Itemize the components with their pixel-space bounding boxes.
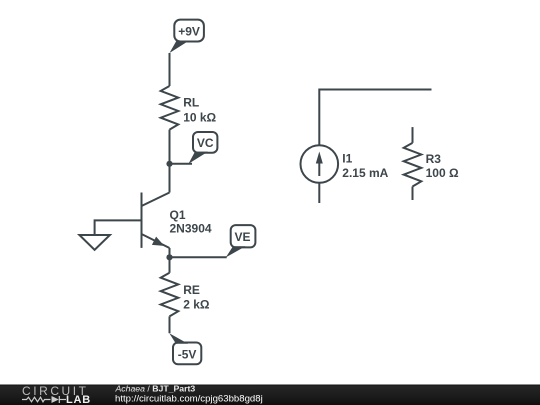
wire +9V to RL [169, 53, 171, 86]
resistor RE [161, 273, 210, 317]
svg-text:10 kΩ: 10 kΩ [183, 111, 216, 125]
wire node to RE [169, 257, 171, 273]
svg-text:RL: RL [183, 96, 199, 110]
svg-text:2.15 mA: 2.15 mA [342, 166, 388, 180]
net label +9V [170, 20, 204, 53]
footer bar [0, 385, 540, 405]
net label VC [170, 132, 218, 164]
wire node to VC tail [170, 163, 193, 165]
wire top right [319, 90, 431, 146]
svg-text:2 kΩ: 2 kΩ [183, 298, 210, 312]
net label VE [226, 225, 256, 257]
node VC dot [166, 161, 172, 167]
svg-text:Q1: Q1 [170, 208, 186, 222]
resistor R3 [404, 127, 459, 200]
svg-text:100 Ω: 100 Ω [426, 166, 459, 180]
node VE dot [166, 254, 172, 260]
svg-text:Achaea / BJT_Part3: Achaea / BJT_Part3 [115, 383, 196, 393]
svg-text:I1: I1 [342, 151, 352, 165]
emitter arrow [152, 237, 164, 246]
wire emitter to VE [170, 256, 227, 258]
svg-text:VC: VC [197, 136, 214, 150]
ground [79, 235, 110, 250]
resistor RL [161, 86, 217, 130]
transistor Q1 [142, 193, 212, 258]
wire I1 bottom lead [318, 183, 320, 203]
svg-text:VE: VE [234, 230, 250, 244]
svg-text:http://circuitlab.com/cpjg63bb: http://circuitlab.com/cpjg63bb8gd8j [115, 393, 263, 404]
svg-text:R3: R3 [426, 152, 442, 166]
svg-text:2N3904: 2N3904 [170, 222, 212, 236]
wire base [95, 220, 142, 235]
current source I1 [301, 145, 389, 183]
net label -5V [169, 333, 201, 364]
wire RL to collector [169, 130, 171, 193]
wire RE to -5V [169, 316, 171, 333]
svg-text:LAB: LAB [66, 394, 91, 405]
CircuitLab logo resistor-diode symbol [22, 396, 66, 403]
svg-text:-5V: -5V [178, 347, 197, 361]
svg-text:RE: RE [183, 283, 200, 297]
svg-text:+9V: +9V [178, 24, 200, 38]
